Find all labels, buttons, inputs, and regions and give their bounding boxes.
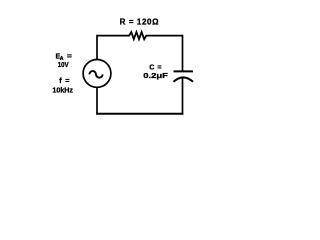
svg-text:R = 120Ω: R = 120Ω	[120, 17, 159, 26]
svg-text:10V: 10V	[58, 60, 69, 69]
svg-text:0.2μF: 0.2μF	[143, 71, 168, 80]
svg-text:10kHz: 10kHz	[52, 86, 73, 95]
svg-text:f =: f =	[59, 76, 69, 85]
